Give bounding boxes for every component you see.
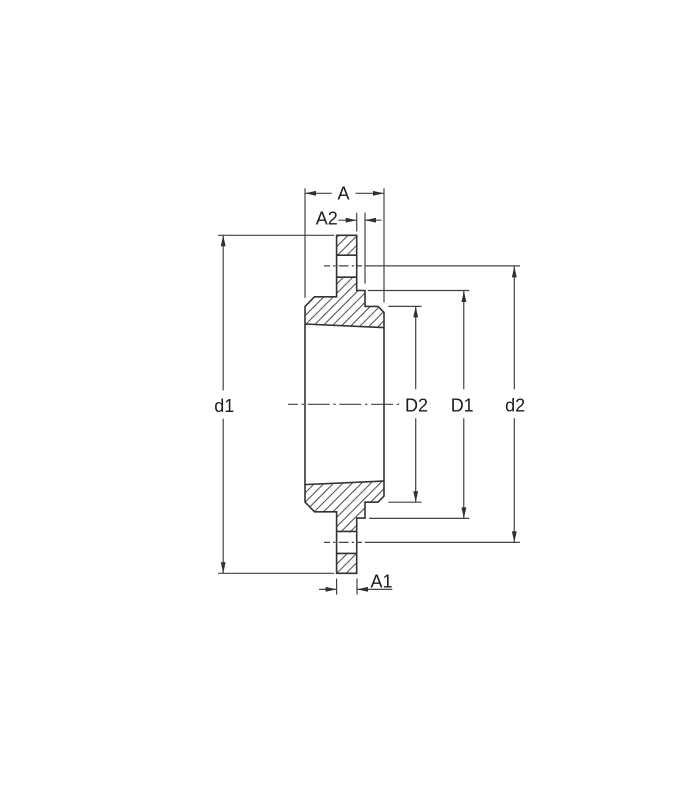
svg-text:d2: d2 (505, 396, 525, 416)
svg-text:D2: D2 (405, 395, 428, 415)
svg-text:A2: A2 (316, 208, 338, 228)
svg-text:d1: d1 (214, 396, 234, 416)
svg-text:A1: A1 (370, 572, 392, 592)
svg-text:D1: D1 (451, 395, 474, 415)
svg-text:A: A (337, 183, 349, 203)
